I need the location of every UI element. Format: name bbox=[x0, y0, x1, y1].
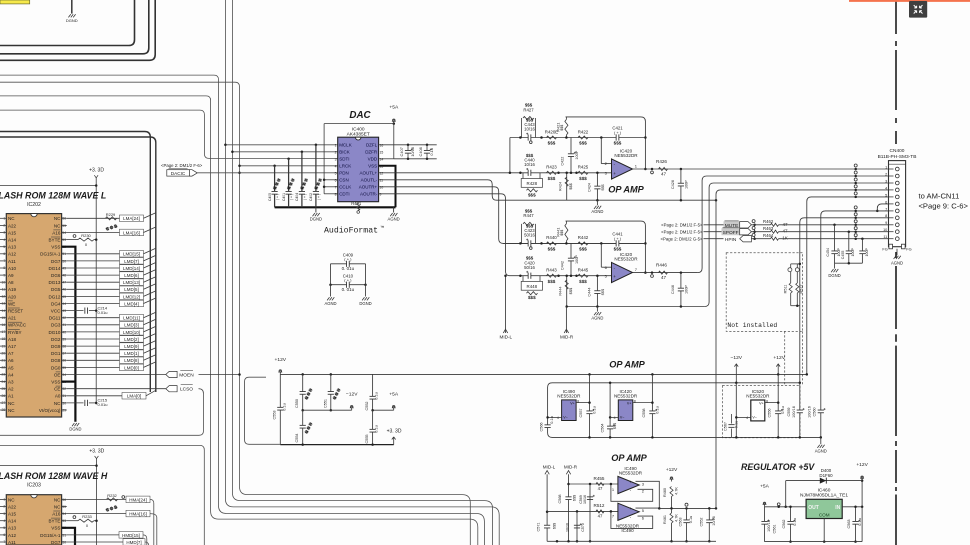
svg-text:11: 11 bbox=[380, 178, 384, 182]
svg-text:8: 8 bbox=[3, 266, 5, 270]
svg-text:CCLK: CCLK bbox=[339, 185, 351, 190]
svg-text:DG11: DG11 bbox=[49, 316, 61, 321]
svg-text:0.1u: 0.1u bbox=[429, 148, 434, 156]
wire mid rail to -12V bbox=[303, 409, 352, 411]
svg-text:A6: A6 bbox=[8, 358, 14, 363]
svg-text:100P: 100P bbox=[575, 150, 579, 159]
resistor R463 (47) bbox=[751, 231, 770, 233]
svg-text:10: 10 bbox=[2, 280, 6, 284]
svg-text:V−: V− bbox=[752, 415, 757, 419]
resistor R424 vertical bbox=[566, 173, 568, 200]
svg-text:4: 4 bbox=[335, 165, 337, 169]
svg-text:25: 25 bbox=[2, 387, 6, 391]
wire diode to OUT bbox=[785, 481, 787, 507]
op-amp IC490 unit B (bottom) bbox=[618, 503, 639, 520]
power +3.3D (filter) bbox=[392, 437, 396, 445]
resistor R421 vertical bbox=[565, 119, 568, 135]
wire R bottom row bbox=[567, 306, 705, 308]
svg-text:$$$: $$$ bbox=[548, 279, 556, 284]
svg-text:R442: R442 bbox=[578, 235, 589, 240]
power +12V (divider) bbox=[671, 479, 673, 482]
net label LCSO on CE bbox=[67, 388, 166, 390]
capacitor C444 vertical bbox=[596, 276, 598, 307]
resistor loop R447 bbox=[521, 224, 523, 244]
svg-text:C563: C563 bbox=[847, 519, 851, 528]
svg-text:OE: OE bbox=[54, 372, 61, 377]
svg-text:4: 4 bbox=[614, 416, 616, 420]
svg-text:OP AMP: OP AMP bbox=[611, 453, 647, 463]
svg-text:13: 13 bbox=[2, 302, 6, 306]
LMD net labels (IC202) bbox=[67, 253, 120, 255]
svg-text:7: 7 bbox=[335, 186, 337, 190]
wire IN bbox=[842, 506, 862, 508]
wire DZFL with caps C407 C408 bbox=[379, 144, 437, 146]
wire CN400 pin1-4 stubs bbox=[856, 168, 895, 170]
svg-text:WP/ACC: WP/ACC bbox=[8, 323, 27, 328]
flash ROM IC202 body bbox=[6, 214, 61, 417]
svg-text:C554: C554 bbox=[295, 433, 299, 442]
svg-text:C422: C422 bbox=[561, 157, 565, 166]
svg-text:V+: V+ bbox=[627, 402, 632, 406]
svg-text:23: 23 bbox=[2, 373, 6, 377]
svg-text:HPIN: HPIN bbox=[725, 237, 737, 243]
wire VSS bus IC203 (thick) bbox=[62, 528, 75, 545]
svg-text:+12V: +12V bbox=[275, 357, 287, 363]
svg-text:DG1: DG1 bbox=[51, 351, 61, 356]
wire bus line D (y110.1 to x204.4 down to SDTI) bbox=[0, 110, 338, 158]
toolbar edge (orange) bbox=[849, 0, 970, 2]
dashed box IC520 not installed bbox=[723, 386, 801, 438]
svg-text:$$$: $$$ bbox=[548, 176, 556, 181]
DAC IC400 body bbox=[338, 137, 379, 202]
IC203 pin rows bbox=[0, 498, 6, 500]
svg-text:R448: R448 bbox=[527, 284, 538, 289]
net label HMD[7] bbox=[67, 541, 123, 543]
power +5A (DAC) bbox=[393, 121, 395, 124]
svg-text:to AM-CN11: to AM-CN11 bbox=[919, 192, 960, 201]
svg-text:( + ): ( + ) bbox=[276, 194, 280, 200]
wire +3.3D feed bbox=[0, 185, 96, 187]
svg-text:C426: C426 bbox=[671, 180, 675, 189]
svg-text:HMA[24]: HMA[24] bbox=[129, 497, 147, 502]
capacitor C454 (100P) bbox=[833, 224, 836, 227]
svg-text:+3. 3D: +3. 3D bbox=[89, 448, 104, 454]
wire VSS bus (thick) bbox=[62, 247, 76, 422]
svg-text:MID-L: MID-L bbox=[500, 335, 513, 340]
wire feedback row (R) bbox=[566, 221, 646, 273]
svg-text:C444: C444 bbox=[587, 288, 591, 297]
svg-text:A13: A13 bbox=[8, 245, 17, 250]
wire IC420 V+ to +12V bbox=[633, 402, 653, 404]
svg-text:C550: C550 bbox=[295, 399, 299, 408]
capacitor C558 bbox=[649, 411, 655, 414]
capacitor C552 inline bbox=[372, 374, 374, 410]
svg-text:C558: C558 bbox=[642, 408, 646, 417]
svg-text:DG13: DG13 bbox=[49, 280, 61, 285]
svg-text:LMD[13]: LMD[13] bbox=[123, 280, 140, 285]
ground DGND (CN caps) bbox=[834, 263, 836, 268]
wire output (R) bbox=[633, 272, 698, 274]
capacitor C422 vertical bbox=[570, 138, 572, 173]
svg-text:C454: C454 bbox=[826, 248, 830, 257]
capacitor C215 bbox=[67, 402, 84, 404]
svg-text:A11: A11 bbox=[8, 540, 16, 545]
svg-text:R511: R511 bbox=[783, 285, 787, 294]
svg-text:NC: NC bbox=[54, 401, 61, 406]
capacitor C557 bbox=[586, 411, 592, 414]
svg-text:A12: A12 bbox=[8, 533, 17, 538]
wire CN400 pin8 to -12V rail bbox=[800, 218, 896, 383]
wire bus line F (x232.4 from top, branch BICK, to y500.6 right to x492.6 down) bbox=[232, 0, 492, 545]
via column at CN400 bbox=[854, 164, 857, 167]
svg-text:NC: NC bbox=[8, 216, 15, 221]
svg-text:4: 4 bbox=[3, 519, 5, 523]
capacitor C551 with ### bbox=[330, 374, 332, 410]
wire +12V rail bbox=[280, 373, 807, 375]
net label LMA[24] bbox=[120, 215, 144, 222]
svg-text:DG15/A-1: DG15/A-1 bbox=[40, 533, 61, 538]
wire divider node bbox=[659, 507, 716, 509]
svg-text:+: + bbox=[629, 506, 632, 511]
svg-text:NE5532DR: NE5532DR bbox=[619, 471, 643, 476]
svg-text:V+: V+ bbox=[570, 402, 575, 406]
wire MCLK branch bbox=[225, 144, 337, 146]
svg-text:AK4385ET: AK4385ET bbox=[347, 131, 370, 137]
svg-text:0.1u: 0.1u bbox=[655, 406, 659, 413]
svg-text:C552: C552 bbox=[700, 517, 704, 526]
ground AGND (L return) bbox=[596, 199, 599, 202]
svg-text:3: 3 bbox=[335, 158, 337, 162]
svg-text:1: 1 bbox=[3, 498, 5, 502]
svg-text:+12V: +12V bbox=[666, 467, 678, 473]
svg-text:A10: A10 bbox=[8, 266, 17, 271]
svg-text:26: 26 bbox=[2, 394, 6, 398]
svg-text:27: 27 bbox=[2, 401, 6, 405]
svg-text:DG8: DG8 bbox=[51, 358, 61, 363]
capacitor C214 on VCC bbox=[67, 310, 84, 312]
svg-text:R460: R460 bbox=[663, 488, 667, 497]
svg-text:LMD[8]: LMD[8] bbox=[124, 358, 139, 363]
wire filter ground bus bbox=[280, 444, 393, 446]
connector pins 1-11 bbox=[889, 168, 894, 170]
svg-text:OUT: OUT bbox=[808, 505, 819, 511]
svg-text:R425: R425 bbox=[578, 165, 589, 170]
svg-text:47: 47 bbox=[661, 172, 667, 177]
svg-text:MID-L: MID-L bbox=[543, 465, 556, 470]
wire -12V rail and left cap branch bbox=[548, 383, 822, 438]
svg-text:NC: NC bbox=[54, 223, 61, 228]
svg-text:+5A: +5A bbox=[760, 483, 770, 489]
svg-text:VCC: VCC bbox=[51, 309, 61, 314]
wire C409/C410 sides bbox=[330, 264, 332, 297]
svg-text:<Page 2: DM1/2 F-5>: <Page 2: DM1/2 F-5> bbox=[661, 230, 703, 235]
capacitor C562 bbox=[790, 507, 792, 542]
ground DGND (IC202) bbox=[72, 423, 74, 426]
svg-text:DG10: DG10 bbox=[49, 330, 61, 335]
svg-text:R512: R512 bbox=[594, 503, 605, 508]
resistor R461 (4.7K) bbox=[671, 508, 673, 513]
svg-text:0.1u: 0.1u bbox=[858, 518, 862, 525]
svg-text:DG2: DG2 bbox=[51, 337, 61, 342]
svg-text:A17: A17 bbox=[8, 344, 17, 349]
feedback loop (bottom A) bbox=[611, 484, 653, 501]
svg-text:VI/O(vccq): VI/O(vccq) bbox=[39, 408, 61, 413]
svg-text:AGND: AGND bbox=[815, 448, 827, 453]
svg-text:5: 5 bbox=[335, 172, 337, 176]
svg-text:6: 6 bbox=[3, 252, 5, 256]
svg-text:AGND: AGND bbox=[591, 316, 603, 321]
net label HMD[15] bbox=[67, 534, 119, 536]
svg-text:$$$: $$$ bbox=[613, 422, 617, 429]
svg-text:A21: A21 bbox=[8, 316, 17, 321]
net label MUTE (highlighted) bbox=[724, 221, 740, 228]
svg-text:AudioFormat: AudioFormat bbox=[324, 226, 378, 236]
svg-text:50/16: 50/16 bbox=[524, 265, 535, 270]
svg-text:7: 7 bbox=[885, 207, 887, 211]
svg-text:$$$: $$$ bbox=[579, 176, 587, 181]
power -12V (op amp rails) bbox=[735, 365, 737, 383]
svg-text:OP AMP: OP AMP bbox=[609, 360, 645, 370]
page boundary dashed line bbox=[895, 0, 897, 34]
svg-text:10/16: 10/16 bbox=[712, 516, 716, 526]
svg-text:18: 18 bbox=[2, 337, 6, 341]
svg-text:LMD[5]: LMD[5] bbox=[124, 287, 139, 292]
svg-text:C405: C405 bbox=[268, 193, 272, 201]
wire DAC outline top bbox=[324, 123, 394, 125]
svg-text:4: 4 bbox=[557, 416, 559, 420]
svg-text:DZFR: DZFR bbox=[365, 150, 378, 155]
svg-text:3: 3 bbox=[3, 231, 5, 235]
svg-text:MID-R: MID-R bbox=[564, 465, 578, 470]
svg-text:4: 4 bbox=[3, 238, 5, 242]
svg-text:DG5: DG5 bbox=[51, 287, 61, 292]
power +12V (op amp rails) bbox=[777, 365, 779, 375]
svg-text:BYTE: BYTE bbox=[49, 519, 61, 524]
svg-text:R447: R447 bbox=[523, 213, 534, 218]
svg-text:$$$: $$$ bbox=[614, 247, 622, 252]
wire AOUTR- to R input row bbox=[379, 194, 612, 276]
svg-text:LMD[15]: LMD[15] bbox=[123, 252, 140, 257]
svg-text:$$$: $$$ bbox=[579, 247, 587, 252]
wire feedback row (L) bbox=[566, 117, 646, 169]
svg-text:LMA[24]: LMA[24] bbox=[123, 216, 140, 221]
svg-text:( + ): ( + ) bbox=[614, 130, 622, 135]
power -12V (filter) bbox=[351, 407, 353, 410]
svg-text:NE5532DR: NE5532DR bbox=[614, 153, 638, 158]
svg-text:0.1u: 0.1u bbox=[375, 392, 379, 399]
svg-text:R424: R424 bbox=[557, 181, 562, 191]
svg-text:A16: A16 bbox=[52, 512, 61, 517]
capacitor C443 inline bbox=[528, 134, 531, 140]
svg-text:0. 01u: 0. 01u bbox=[342, 266, 355, 271]
svg-text:C402: C402 bbox=[309, 193, 313, 201]
wire AOUTL+ to filter row bbox=[379, 172, 612, 174]
capacitor C456 (100P) bbox=[861, 237, 864, 240]
box outline (filter block corner) bbox=[245, 377, 281, 444]
svg-text:6: 6 bbox=[335, 179, 337, 183]
svg-text:C446: C446 bbox=[671, 285, 675, 294]
svg-text:C408: C408 bbox=[418, 147, 423, 156]
svg-text:2: 2 bbox=[335, 151, 337, 155]
svg-text:10/16: 10/16 bbox=[410, 147, 415, 157]
svg-text:R233: R233 bbox=[82, 514, 92, 519]
svg-text:A12: A12 bbox=[8, 252, 17, 257]
svg-text:DG7: DG7 bbox=[51, 259, 61, 264]
svg-text:AOUTL-: AOUTL- bbox=[361, 178, 378, 183]
svg-text:NC: NC bbox=[54, 497, 61, 502]
svg-text:C564: C564 bbox=[601, 423, 605, 432]
svg-text:LMD[9]: LMD[9] bbox=[124, 344, 139, 349]
svg-text:FLASH ROM 128M WAVE L: FLASH ROM 128M WAVE L bbox=[0, 191, 106, 201]
wire bottom section ground rail bbox=[547, 540, 716, 542]
svg-text:C401: C401 bbox=[282, 193, 286, 201]
svg-text:4: 4 bbox=[746, 416, 748, 420]
svg-text:MOEN: MOEN bbox=[179, 372, 194, 378]
wire R output riser to CN pin2 bbox=[698, 176, 857, 273]
svg-text:A14: A14 bbox=[8, 519, 17, 524]
wire IC490 V- to branch bbox=[548, 416, 562, 418]
svg-text:+: + bbox=[613, 171, 616, 176]
svg-text:47: 47 bbox=[782, 222, 788, 227]
svg-text:15: 15 bbox=[2, 316, 6, 320]
svg-text:50/16: 50/16 bbox=[524, 233, 535, 238]
svg-text:R423: R423 bbox=[546, 165, 557, 170]
svg-text:21: 21 bbox=[2, 359, 6, 363]
svg-text:100/16: 100/16 bbox=[767, 520, 771, 532]
svg-text:R428: R428 bbox=[527, 181, 538, 186]
svg-text:$$$: $$$ bbox=[601, 288, 605, 295]
wire inverting input riser (L) bbox=[600, 138, 602, 164]
dashed box Not installed bbox=[726, 253, 802, 332]
ground AGND (R return) bbox=[596, 305, 599, 308]
svg-text:R422: R422 bbox=[578, 129, 589, 134]
svg-text:+3. 3D: +3. 3D bbox=[89, 168, 104, 174]
regulator IC460 body bbox=[806, 499, 842, 518]
svg-text:OP AMP: OP AMP bbox=[608, 185, 644, 195]
svg-text:R230: R230 bbox=[81, 233, 91, 238]
svg-text:VDD: VDD bbox=[368, 157, 378, 162]
capacitor C407 bbox=[407, 145, 409, 159]
svg-text:$$$: $$$ bbox=[568, 182, 573, 189]
svg-text:LMA[0]: LMA[0] bbox=[127, 394, 141, 399]
svg-text:100P: 100P bbox=[685, 180, 689, 189]
svg-text:A9: A9 bbox=[8, 273, 14, 278]
svg-text:0.01u: 0.01u bbox=[98, 310, 108, 315]
svg-text:B11B-PH-SM3-TB: B11B-PH-SM3-TB bbox=[878, 154, 917, 160]
highlighted component (yellow) bbox=[0, 0, 30, 4]
capacitor C563 (regulator) bbox=[855, 507, 857, 542]
resistor R511 bbox=[791, 263, 800, 265]
wire CN400 pin5 to +12V rail bbox=[807, 197, 896, 375]
power +12V (regulator) bbox=[861, 478, 863, 481]
capacitor C424 vertical bbox=[596, 173, 598, 200]
svg-text:+5A: +5A bbox=[389, 391, 399, 397]
resistor R464 (1K) bbox=[751, 238, 770, 240]
svg-text:C557: C557 bbox=[579, 408, 583, 417]
wire VDD bbox=[379, 158, 394, 160]
svg-text:NC: NC bbox=[8, 497, 15, 502]
svg-text:A22: A22 bbox=[8, 504, 17, 509]
ground AGND (C409) bbox=[327, 297, 329, 300]
svg-text:−12V: −12V bbox=[731, 355, 743, 361]
wire A16 to LMA[16] bbox=[67, 232, 120, 234]
svg-text:VSS: VSS bbox=[51, 526, 60, 531]
svg-text:REGULATOR +5V: REGULATOR +5V bbox=[741, 462, 815, 472]
wire bus line A (y75 to x218.5 down to y513.5 right to x484 down) bbox=[0, 75, 484, 545]
fullscreen icon bbox=[909, 1, 927, 18]
wire corner bundle (top-left block outlines) bbox=[0, 0, 135, 46]
svg-text:( + ): ( + ) bbox=[317, 194, 321, 200]
svg-text:51: 51 bbox=[62, 252, 66, 256]
svg-text:100P: 100P bbox=[851, 248, 855, 257]
capacitor C553 inline bbox=[279, 374, 281, 444]
svg-text:A16: A16 bbox=[52, 230, 61, 235]
wire memory bus (double) top bbox=[0, 132, 150, 393]
wire AOUTR+ to R mid row bbox=[379, 187, 646, 244]
wire horizontal B bbox=[0, 445, 204, 545]
svg-text:R446: R446 bbox=[656, 262, 667, 267]
svg-text:LMD[14]: LMD[14] bbox=[123, 266, 140, 271]
svg-text:A22: A22 bbox=[8, 223, 17, 228]
svg-text:$$$: $$$ bbox=[568, 287, 573, 294]
svg-text:A4: A4 bbox=[8, 372, 14, 377]
svg-text:R401: R401 bbox=[351, 201, 362, 206]
svg-text:AGND: AGND bbox=[388, 217, 400, 222]
svg-text:100P: 100P bbox=[865, 248, 869, 257]
wire mid row (L) bbox=[510, 137, 646, 139]
svg-text:SPOFF: SPOFF bbox=[723, 230, 739, 236]
svg-text:A7: A7 bbox=[8, 351, 14, 356]
power +12V (filter) bbox=[279, 371, 281, 374]
svg-text:R461: R461 bbox=[663, 515, 667, 524]
svg-text:C404: C404 bbox=[295, 193, 299, 201]
svg-text:A2: A2 bbox=[8, 387, 14, 392]
svg-text:C552: C552 bbox=[365, 401, 369, 410]
svg-text:AOUTR+: AOUTR+ bbox=[359, 185, 378, 190]
svg-text:R444: R444 bbox=[557, 286, 562, 296]
svg-text:NE5532DR: NE5532DR bbox=[614, 393, 638, 398]
svg-text:C560: C560 bbox=[812, 407, 816, 416]
svg-text:NE5532DR: NE5532DR bbox=[746, 393, 770, 398]
svg-text:NC: NC bbox=[8, 401, 15, 406]
net label LMA[0] on A0 bbox=[67, 395, 122, 397]
svg-text:LMD[3]: LMD[3] bbox=[124, 323, 139, 328]
svg-text:LMD[7]: LMD[7] bbox=[124, 259, 139, 264]
svg-text:C407: C407 bbox=[399, 147, 404, 156]
svg-text:<Page 2: DM1/2 G-5>: <Page 2: DM1/2 G-5> bbox=[660, 237, 703, 242]
net label LMA[16] bbox=[120, 229, 144, 236]
svg-text:20: 20 bbox=[2, 351, 6, 355]
svg-text:AGND: AGND bbox=[324, 301, 336, 306]
capacitor C570 bbox=[574, 525, 580, 528]
net label MOEN on OE bbox=[67, 374, 166, 376]
svg-text:+: + bbox=[613, 274, 616, 279]
svg-text:3: 3 bbox=[3, 512, 5, 516]
svg-text:R512: R512 bbox=[799, 284, 803, 293]
svg-text:V+: V+ bbox=[759, 402, 764, 406]
wire AOUTL- to return row bbox=[379, 180, 716, 200]
wire bus line B (y82 to x239.5 down to y494.6 right to x470 down) bbox=[0, 82, 470, 545]
svg-text:A3: A3 bbox=[8, 380, 14, 385]
svg-text:5: 5 bbox=[3, 526, 5, 530]
svg-text:AGND: AGND bbox=[891, 260, 903, 265]
svg-text:100P: 100P bbox=[685, 285, 689, 294]
capacitor C552 (bottom) bbox=[708, 508, 710, 541]
net label HMA[16] bbox=[67, 513, 126, 515]
svg-text:A0: A0 bbox=[55, 394, 61, 399]
svg-text:R229: R229 bbox=[106, 212, 116, 217]
ground DGND (C410) bbox=[362, 297, 364, 300]
